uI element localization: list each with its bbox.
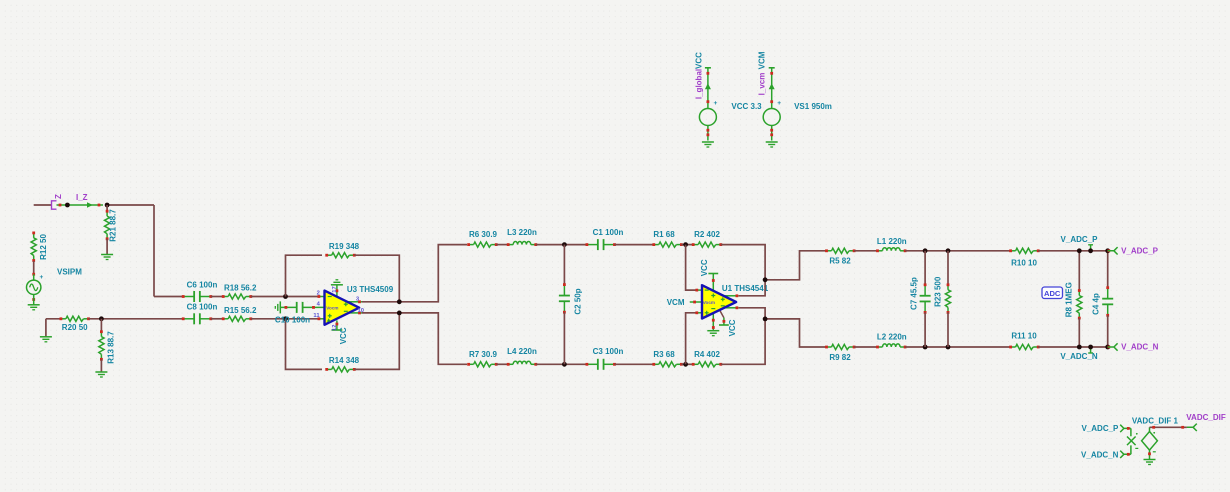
resistor R7 30.9: [467, 362, 497, 367]
svg-text:R1 68: R1 68: [653, 230, 675, 239]
inductor L1 220n: [876, 248, 906, 253]
junction: [946, 345, 951, 350]
tag VADC_DIF: [1187, 424, 1197, 431]
svg-text:C2 50p: C2 50p: [573, 288, 582, 314]
svg-text:VCC: VCC: [339, 327, 348, 344]
svg-text:R6 30.9: R6 30.9: [469, 230, 498, 239]
wire: [1107, 315, 1109, 347]
junction: [923, 345, 928, 350]
wire: [362, 245, 467, 302]
svg-text:I_global: I_global: [694, 69, 703, 99]
wire: [100, 319, 102, 332]
svg-text:I_vcm: I_vcm: [757, 73, 766, 96]
svg-text:17: 17: [332, 286, 338, 292]
wire: [854, 250, 877, 252]
capacitor: [1102, 286, 1113, 316]
ground (U3 pin17): [331, 284, 343, 286]
tag fork V_ADC_P: [1120, 425, 1126, 432]
svg-text:+: +: [40, 274, 44, 281]
svg-text:V_ADC_P: V_ADC_P: [1061, 235, 1099, 244]
wire: [854, 346, 877, 348]
ground (VSIPM): [28, 304, 40, 306]
wire: [905, 346, 1011, 348]
svg-text:R5 82: R5 82: [829, 256, 851, 265]
wire: [107, 204, 154, 206]
svg-text:12: 12: [332, 325, 338, 331]
svg-text:U3 THS4509: U3 THS4509: [347, 285, 394, 294]
svg-text:11: 11: [313, 313, 320, 319]
wire (VADC_DIF output): [1150, 426, 1187, 428]
wire: [536, 363, 587, 365]
resistor R9 82: [825, 344, 855, 349]
junction: [683, 362, 688, 367]
wire: [681, 244, 693, 246]
resistor: [105, 210, 110, 240]
node V_ADC_N: [1090, 347, 1092, 353]
svg-text:L1 220n: L1 220n: [877, 237, 907, 246]
svg-text:C4 4p: C4 4p: [1091, 293, 1100, 315]
resistor R18 56.2: [222, 294, 252, 299]
wire: [686, 245, 696, 291]
voltage source VS1 950m: [757, 51, 832, 140]
wire: [536, 244, 587, 246]
svg-text:V_ADC_P: V_ADC_P: [1081, 424, 1119, 433]
svg-text:V_ADC_N: V_ADC_N: [1081, 450, 1119, 459]
wire: [33, 261, 35, 275]
wire: [681, 363, 693, 365]
wire: [765, 319, 826, 347]
resistor: [1077, 289, 1082, 319]
junction (U3 -in): [283, 294, 288, 299]
junction (U3 +in): [283, 316, 288, 321]
svg-text:R15 56.2: R15 56.2: [224, 306, 257, 315]
wire: [1038, 346, 1108, 348]
svg-text:+: +: [777, 100, 781, 107]
voltage source VSIPM: [27, 268, 83, 305]
ground (U1): [707, 330, 719, 332]
capacitor C1 100n: [586, 239, 616, 250]
junction: [397, 299, 402, 304]
svg-text:Vocm: Vocm: [703, 300, 715, 305]
junction: [562, 362, 567, 367]
svg-text:L4 220n: L4 220n: [507, 347, 537, 356]
wire: [34, 204, 51, 206]
junction: [105, 203, 110, 208]
wire: [286, 319, 323, 370]
junction: [946, 248, 951, 253]
wire: [765, 251, 826, 280]
svg-text:R18 56.2: R18 56.2: [224, 284, 257, 293]
svg-text:+: +: [714, 100, 718, 107]
wire: [46, 318, 62, 320]
ADC box: [1042, 287, 1063, 299]
ground (R13): [95, 371, 107, 373]
voltage source VCC 3.3: [694, 52, 762, 141]
wire: [251, 318, 319, 320]
svg-text:R9 82: R9 82: [829, 353, 851, 362]
wire: [721, 245, 765, 280]
junction: [562, 242, 567, 247]
junction: [397, 311, 402, 316]
resistor R15 56.2: [222, 316, 252, 321]
inductor L3 220n: [507, 242, 537, 247]
current arrow I_Z: [57, 204, 104, 206]
wire: [563, 312, 565, 364]
resistor: [31, 232, 36, 262]
svg-text:VCM: VCM: [667, 298, 685, 307]
inductor L4 220n: [507, 361, 537, 366]
svg-text:R21 88.7: R21 88.7: [108, 209, 117, 242]
svg-text:ADC: ADC: [1044, 289, 1061, 298]
junction: [1088, 248, 1093, 253]
svg-text:Vocm: Vocm: [326, 305, 338, 310]
svg-text:R10 10: R10 10: [1011, 258, 1037, 267]
wire: [496, 363, 508, 365]
svg-text:R2 402: R2 402: [694, 230, 720, 239]
tag V_ADC_N: [1108, 343, 1118, 350]
svg-text:R8 1MEG: R8 1MEG: [1064, 282, 1073, 317]
capacitor C6 100n: [182, 291, 212, 302]
wire: [1127, 453, 1131, 455]
resistor R20 50: [59, 316, 89, 321]
svg-text:L3 220n: L3 220n: [507, 228, 537, 237]
resistor R10 10: [1009, 248, 1039, 253]
ground (VCC 3.3): [702, 141, 714, 143]
wire: [100, 359, 102, 372]
resistor R14 348: [325, 367, 355, 372]
svg-text:R19 348: R19 348: [329, 242, 360, 251]
op-amp U3 THS4509: [313, 285, 393, 345]
wire: [89, 318, 183, 320]
ground (VADC_DIF): [1144, 459, 1156, 461]
inductor L2 220n: [876, 344, 906, 349]
svg-text:VADC_DIF 1: VADC_DIF 1: [1132, 416, 1179, 425]
resistor: [99, 330, 104, 360]
wire: [496, 244, 508, 246]
wire: [924, 312, 926, 347]
svg-text:Z: Z: [54, 194, 63, 199]
junction: [763, 317, 768, 322]
svg-text:C8 100n: C8 100n: [187, 303, 218, 312]
ground (VS1 950m): [766, 141, 778, 143]
svg-text:R3 68: R3 68: [653, 350, 675, 359]
capacitor: [920, 283, 931, 313]
wire: [106, 239, 108, 255]
svg-text:VADC_DIF: VADC_DIF: [1186, 413, 1226, 422]
ground (R20): [40, 336, 52, 338]
wire: [615, 244, 654, 246]
wire: [286, 255, 323, 296]
wire: [686, 313, 696, 365]
svg-text:R23 500: R23 500: [934, 276, 943, 307]
svg-text:VCC: VCC: [700, 259, 709, 276]
svg-text:R14 348: R14 348: [329, 356, 360, 365]
resistor R1 68: [652, 242, 682, 247]
wire: [362, 313, 467, 364]
svg-text:L2 220n: L2 220n: [877, 333, 907, 342]
svg-text:V_ADC_N: V_ADC_N: [1060, 352, 1098, 361]
capacitor C8 100n: [182, 313, 212, 324]
tag V_ADC_P: [1108, 247, 1118, 254]
wire: [905, 250, 1011, 252]
wire: [154, 296, 183, 298]
resistor R6 30.9: [467, 242, 497, 247]
svg-text:VCC: VCC: [694, 52, 703, 69]
wire: [354, 255, 399, 302]
wire: [739, 308, 765, 319]
svg-text:VS1 950m: VS1 950m: [794, 102, 832, 111]
svg-text:V_ADC_P: V_ADC_P: [1121, 246, 1159, 255]
wire: [153, 205, 155, 297]
svg-text:R20 50: R20 50: [62, 323, 88, 332]
wire: [947, 251, 949, 286]
junction: [923, 248, 928, 253]
svg-text:C7 45.5p: C7 45.5p: [909, 277, 918, 310]
wire: [106, 205, 108, 211]
svg-text:C6 100n: C6 100n: [187, 280, 218, 289]
svg-text:U1 THS4541: U1 THS4541: [722, 284, 769, 293]
op-amp U1 THS4541: [695, 259, 768, 336]
svg-text:VCM: VCM: [757, 51, 766, 69]
svg-text:VCC 3.3: VCC 3.3: [731, 102, 762, 111]
resistor R5 82: [825, 248, 855, 253]
resistor: [945, 283, 950, 313]
node VCM: [690, 301, 702, 303]
resistor R11 10: [1009, 344, 1039, 349]
svg-text:R4 402: R4 402: [694, 350, 720, 359]
wire: [1038, 250, 1108, 252]
svg-text:R12 50: R12 50: [39, 234, 48, 260]
jumper Z: [52, 201, 57, 209]
wire: [211, 318, 224, 320]
wire: [739, 280, 765, 296]
wire: [1078, 251, 1080, 291]
junction: [1088, 345, 1093, 350]
junction: [1105, 248, 1110, 253]
svg-text:R11 10: R11 10: [1011, 331, 1037, 340]
wire: [563, 245, 565, 285]
svg-text:C3 100n: C3 100n: [593, 347, 624, 356]
ground (R21): [101, 254, 113, 256]
wire: [354, 313, 399, 370]
svg-text:2: 2: [317, 291, 320, 297]
wire: [947, 312, 949, 347]
capacitor C10 100n: [280, 306, 296, 308]
wire: [1107, 251, 1109, 288]
wire: [251, 296, 319, 298]
tag fork V_ADC_N: [1120, 451, 1126, 458]
wire: [1127, 427, 1131, 429]
wire: [211, 296, 224, 298]
capacitor: [559, 283, 570, 313]
junction: [1105, 345, 1110, 350]
svg-text:V_ADC_N: V_ADC_N: [1121, 343, 1159, 352]
wire: [615, 363, 654, 365]
junction: [99, 316, 104, 321]
resistor R2 402: [692, 242, 722, 247]
resistor R19 348: [325, 253, 355, 258]
svg-text:R13 88.7: R13 88.7: [107, 331, 116, 364]
junction: [1077, 248, 1082, 253]
svg-text:R7 30.9: R7 30.9: [469, 350, 498, 359]
svg-text:VCC: VCC: [728, 319, 737, 336]
wire: [924, 251, 926, 286]
junction: [763, 277, 768, 282]
wire: [721, 319, 765, 364]
resistor R3 68: [652, 362, 682, 367]
node V_ADC_P: [1090, 245, 1092, 251]
junction: [1077, 345, 1082, 350]
junction: [683, 242, 688, 247]
svg-text:C10 100n: C10 100n: [275, 315, 310, 324]
wire: [45, 319, 47, 337]
capacitor C3 100n: [586, 359, 616, 370]
svg-text:C1 100n: C1 100n: [593, 228, 624, 237]
resistor R4 402: [692, 362, 722, 367]
wire: [1078, 318, 1080, 347]
controlled source VADC_DIF 1: [1127, 416, 1179, 459]
ground (C10): [279, 301, 281, 313]
svg-text:I_Z: I_Z: [76, 193, 88, 202]
junction: [65, 203, 70, 208]
terminal tick: [32, 273, 35, 276]
svg-text:VSIPM: VSIPM: [57, 268, 82, 277]
